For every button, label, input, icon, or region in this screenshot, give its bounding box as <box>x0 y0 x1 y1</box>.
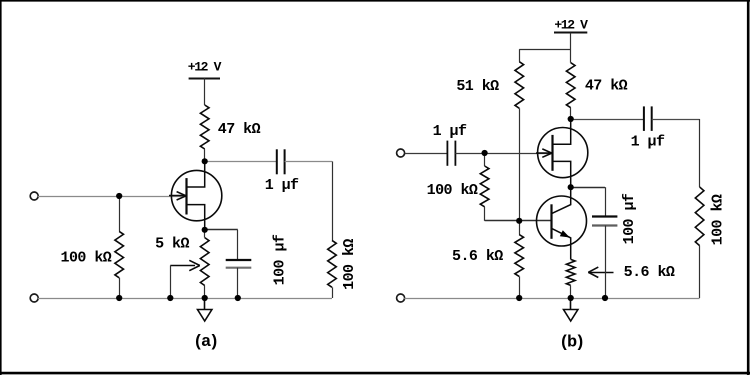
svg-text:47 kΩ: 47 kΩ <box>585 77 628 94</box>
svg-text:5 kΩ: 5 kΩ <box>155 236 189 253</box>
svg-text:1 μf: 1 μf <box>433 123 467 140</box>
svg-text:+12 V: +12 V <box>554 17 588 32</box>
svg-text:(a): (a) <box>193 333 217 352</box>
svg-text:5.6 kΩ: 5.6 kΩ <box>452 248 503 265</box>
svg-text:5.6 kΩ: 5.6 kΩ <box>624 264 675 281</box>
svg-text:100 kΩ: 100 kΩ <box>710 194 727 245</box>
svg-text:(b): (b) <box>559 333 583 352</box>
svg-text:100 μf: 100 μf <box>621 193 638 244</box>
svg-text:+12 V: +12 V <box>188 60 222 75</box>
svg-text:100 kΩ: 100 kΩ <box>341 239 358 290</box>
svg-text:1 μf: 1 μf <box>265 177 299 194</box>
svg-text:100 kΩ: 100 kΩ <box>61 250 112 267</box>
svg-text:51 kΩ: 51 kΩ <box>456 78 499 95</box>
svg-text:100 μf: 100 μf <box>272 234 289 285</box>
svg-text:1 μf: 1 μf <box>631 134 665 151</box>
svg-text:47 kΩ: 47 kΩ <box>218 121 261 138</box>
svg-text:100 kΩ: 100 kΩ <box>427 182 478 199</box>
